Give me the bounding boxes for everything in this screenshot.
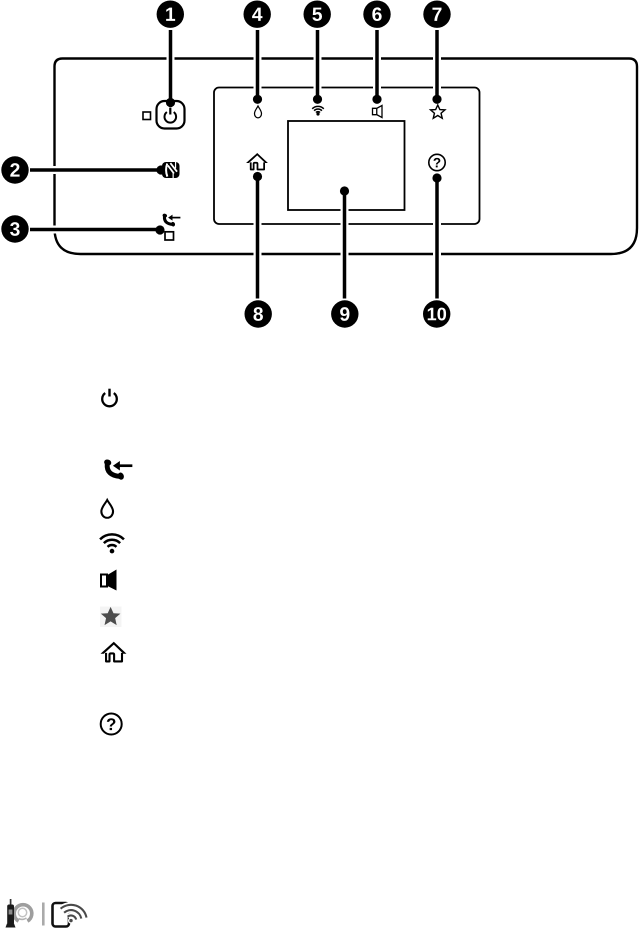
panel icon: wifi [312, 106, 324, 115]
leader line 6 [373, 30, 381, 99]
leader line 3 [30, 226, 160, 234]
panel icon: help [429, 154, 445, 170]
numbered circle 2 [1, 156, 28, 183]
numbered circle 1 [157, 1, 184, 28]
footer divider bar [42, 903, 45, 926]
fax status square [165, 232, 174, 240]
leader line 7 [433, 30, 441, 99]
panel icon: droplet [255, 106, 262, 118]
legend: wifi icon [100, 534, 124, 553]
footer icon: phone/answering machine [6, 899, 32, 928]
panel icon: star [431, 105, 445, 118]
leader line 1 [167, 30, 175, 102]
legend: fax icon [103, 458, 132, 480]
power button [157, 101, 185, 129]
numbered circle 8 [245, 300, 272, 327]
panel icon: nfc n-mark [162, 162, 180, 178]
footer icon: smartphone with nfc waves [53, 903, 87, 927]
legend: star icon [100, 607, 122, 628]
touch panel inner rect [214, 88, 480, 225]
leader dots [166, 98, 175, 107]
numbered circle 4 [244, 1, 271, 28]
LCD screen rect [288, 121, 405, 210]
legend: home icon [101, 642, 127, 662]
leader line 4 [254, 30, 262, 99]
numbered circle 9 [331, 300, 358, 327]
panel icon: fax [162, 213, 180, 227]
panel icon: speaker [373, 106, 383, 118]
numbered circle 5 [304, 1, 331, 28]
numbered circle 10 [423, 300, 450, 327]
legend: droplet icon [101, 500, 113, 518]
panel icon: home [246, 153, 268, 169]
leader line 5 [314, 30, 322, 99]
leader line 9 [341, 191, 349, 299]
numbered circle 3 [1, 215, 28, 242]
leader line 2 [30, 166, 161, 174]
numbered circle 6 [363, 1, 390, 28]
leader line 8 [254, 177, 262, 299]
printer control panel outline [55, 59, 638, 255]
power status square [143, 112, 151, 120]
legend: power icon [102, 389, 117, 407]
legend: help icon [101, 714, 122, 735]
leader line 10 [433, 178, 441, 299]
legend: speaker icon [101, 570, 117, 591]
numbered circle 7 [423, 1, 450, 28]
